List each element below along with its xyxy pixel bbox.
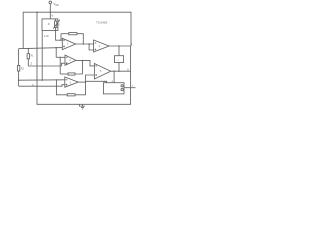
node ground tick	[78, 104, 80, 106]
op-amp A1	[62, 38, 75, 49]
wire left column to R2	[18, 49, 20, 66]
A3 plus mark	[66, 84, 68, 86]
wire A1 out to A4 minus	[76, 43, 94, 45]
wire branch to A4 plus	[89, 44, 94, 50]
op-amp A3	[65, 77, 78, 87]
thermistor RT lead top	[55, 19, 57, 21]
svg-text:R: R	[48, 22, 50, 26]
load box RL	[115, 56, 124, 63]
svg-text:1: 1	[67, 43, 69, 46]
node A3 minus fb	[56, 79, 57, 80]
svg-text:1,2k: 1,2k	[44, 35, 49, 38]
resistor R3 feedback A1	[69, 33, 77, 35]
relay contact circle 2	[121, 88, 123, 90]
wire relay output pin 7	[124, 87, 136, 89]
wire A3 out up to A5 plus	[86, 75, 95, 82]
wire load box top lead	[118, 46, 120, 56]
svg-text:VDD: VDD	[53, 2, 59, 7]
svg-text:R1: R1	[31, 55, 35, 57]
node pin3 tee	[18, 80, 19, 81]
wire R2 down	[18, 71, 20, 86]
wire pin2 to A2 plus	[62, 63, 66, 66]
A1 minus mark	[63, 39, 65, 41]
relay box	[103, 83, 124, 94]
node rail-x37	[36, 12, 37, 13]
wire A3 fb left	[56, 80, 67, 95]
wire A2 out to A5 minus	[76, 60, 94, 66]
svg-text:6: 6	[52, 13, 54, 17]
svg-text:2: 2	[30, 62, 32, 66]
wire pin3 line to A3 inverting	[19, 79, 65, 81]
wire A2 fb left horiz	[60, 73, 68, 75]
wire to A3 plus	[19, 85, 65, 87]
svg-text:t°: t°	[59, 23, 61, 27]
wire A3 out	[78, 81, 85, 83]
svg-text:1: 1	[131, 42, 133, 46]
svg-text:3: 3	[70, 81, 72, 84]
A2 plus mark	[66, 62, 68, 64]
wire terminal to rail	[49, 4, 51, 13]
node A5 out / load lead	[118, 71, 119, 72]
svg-text:5: 5	[100, 70, 102, 73]
A4 minus mark	[95, 42, 97, 44]
resistor R1	[27, 54, 29, 59]
node A1 plus link	[56, 47, 57, 48]
wire A1 fb tap	[60, 34, 62, 41]
ground	[80, 104, 85, 109]
wire R1 to pin2 line	[28, 59, 61, 66]
wire A5 out to right bus	[111, 70, 131, 72]
A1 plus mark	[63, 46, 65, 48]
node divider x28.3	[28, 48, 29, 49]
op-amp A2	[65, 55, 76, 65]
svg-text:2: 2	[69, 59, 71, 62]
node sensor bottom	[55, 30, 56, 31]
node A2 out fb	[82, 60, 83, 61]
A5 plus mark	[95, 74, 97, 76]
node rail-x50	[50, 12, 51, 13]
A4 plus mark	[95, 49, 97, 51]
wire A5 out down to relay stub	[113, 71, 115, 78]
wire A4 out to right bus	[109, 45, 131, 47]
resistor R1 leads	[27, 49, 29, 54]
node A5 out stub	[113, 71, 114, 72]
relay contact lead 2	[122, 89, 125, 91]
wire thermistor to A1 inverting input	[56, 28, 63, 41]
wire A2 inverting stub	[56, 56, 65, 58]
relay contact circle 1	[121, 85, 123, 87]
node A4 out / load lead	[118, 45, 119, 46]
A3 minus mark	[66, 79, 68, 81]
node A1 out fb	[83, 43, 84, 44]
wire divider to A1 plus	[23, 48, 62, 49]
wire A3 fb down	[75, 82, 86, 95]
svg-text:TCA965: TCA965	[96, 20, 108, 24]
wire fb right	[77, 34, 83, 44]
resistor R2	[17, 65, 19, 71]
wire divider feed	[19, 48, 24, 50]
op-amp A4	[94, 40, 109, 52]
wire A1+ / A2- link	[55, 48, 57, 58]
wire top rail	[23, 12, 131, 48]
node A2 minus fb	[60, 57, 61, 58]
resistor R5 feedback A3	[67, 94, 75, 96]
wire A2 fb right	[75, 60, 82, 74]
relay pin stub 2	[113, 79, 115, 83]
op-amp A5	[94, 64, 110, 80]
thermistor arrow	[53, 20, 60, 29]
node A3 out	[85, 81, 86, 82]
wire A2 fb left lead	[59, 57, 61, 74]
svg-text:r: r	[118, 58, 119, 62]
node sensor lead / pin3 line	[42, 80, 43, 81]
wire sensor box left lead down to pin3 line	[41, 30, 43, 80]
node A1 out branch	[88, 43, 89, 44]
wire vdd into sensor box	[49, 12, 51, 19]
sensor box	[42, 19, 58, 31]
wire left loop (Vss rectangle)	[37, 12, 131, 104]
supply terminal VDD	[49, 1, 52, 4]
resistor R4 feedback A2	[68, 73, 75, 75]
wire load box bottom lead	[118, 63, 120, 72]
wire A3 out to relay box pin	[86, 81, 107, 82]
thermistor RT	[55, 21, 57, 28]
svg-text:R2: R2	[21, 68, 25, 70]
wire fb left	[61, 33, 69, 35]
node A1 fb tap	[60, 40, 61, 41]
svg-text:4: 4	[99, 45, 101, 48]
relay contact lead 1	[122, 85, 125, 87]
A5 minus mark	[95, 65, 97, 67]
A2 minus mark	[66, 56, 68, 58]
